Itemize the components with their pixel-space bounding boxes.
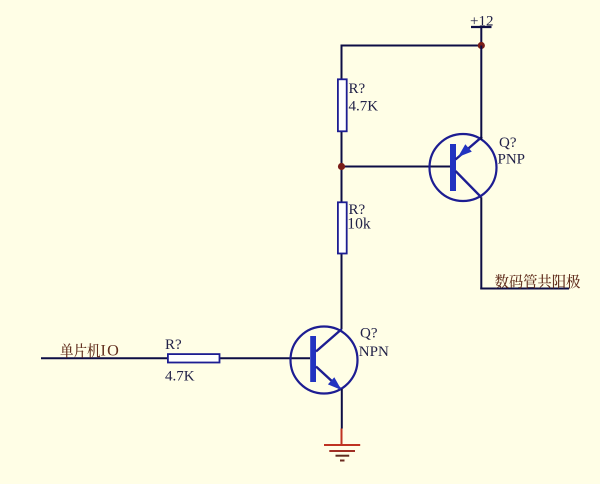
transistor Q2 NPN [291, 327, 358, 394]
svg-text:Q?: Q? [499, 135, 517, 151]
junction at +12 rail [478, 42, 485, 49]
transistor Q1 PNP [430, 134, 497, 201]
resistor R3 [168, 354, 220, 362]
resistor R2 [338, 202, 347, 253]
svg-text:10k: 10k [347, 216, 371, 233]
svg-text:R?: R? [349, 81, 366, 97]
resistor R1 [338, 79, 347, 131]
wire top rail [341, 45, 482, 47]
wire Q1 collector down [480, 197, 482, 289]
svg-text:PNP: PNP [498, 151, 526, 167]
wire middle column [341, 45, 343, 330]
svg-text:Q?: Q? [360, 326, 378, 342]
net label 单片机IO [60, 342, 120, 360]
wire to anode net label [480, 288, 569, 290]
wire node A to Q1 base [342, 166, 451, 168]
svg-text:R?: R? [165, 337, 182, 353]
svg-text:+12: +12 [470, 14, 493, 30]
svg-text:NPN: NPN [359, 344, 389, 360]
net label 数码管共阳极 [495, 274, 580, 289]
wire +12 rail to Q1 emitter [480, 46, 482, 140]
svg-text:4.7K: 4.7K [349, 99, 379, 115]
wire input to Q2 base [41, 357, 310, 359]
power symbol +12 [471, 27, 492, 46]
svg-text:4.7K: 4.7K [165, 368, 195, 384]
ground [324, 429, 360, 461]
wire Q2 emitter to ground [341, 389, 343, 429]
svg-text:IO: IO [101, 342, 120, 360]
junction node A [338, 163, 345, 170]
